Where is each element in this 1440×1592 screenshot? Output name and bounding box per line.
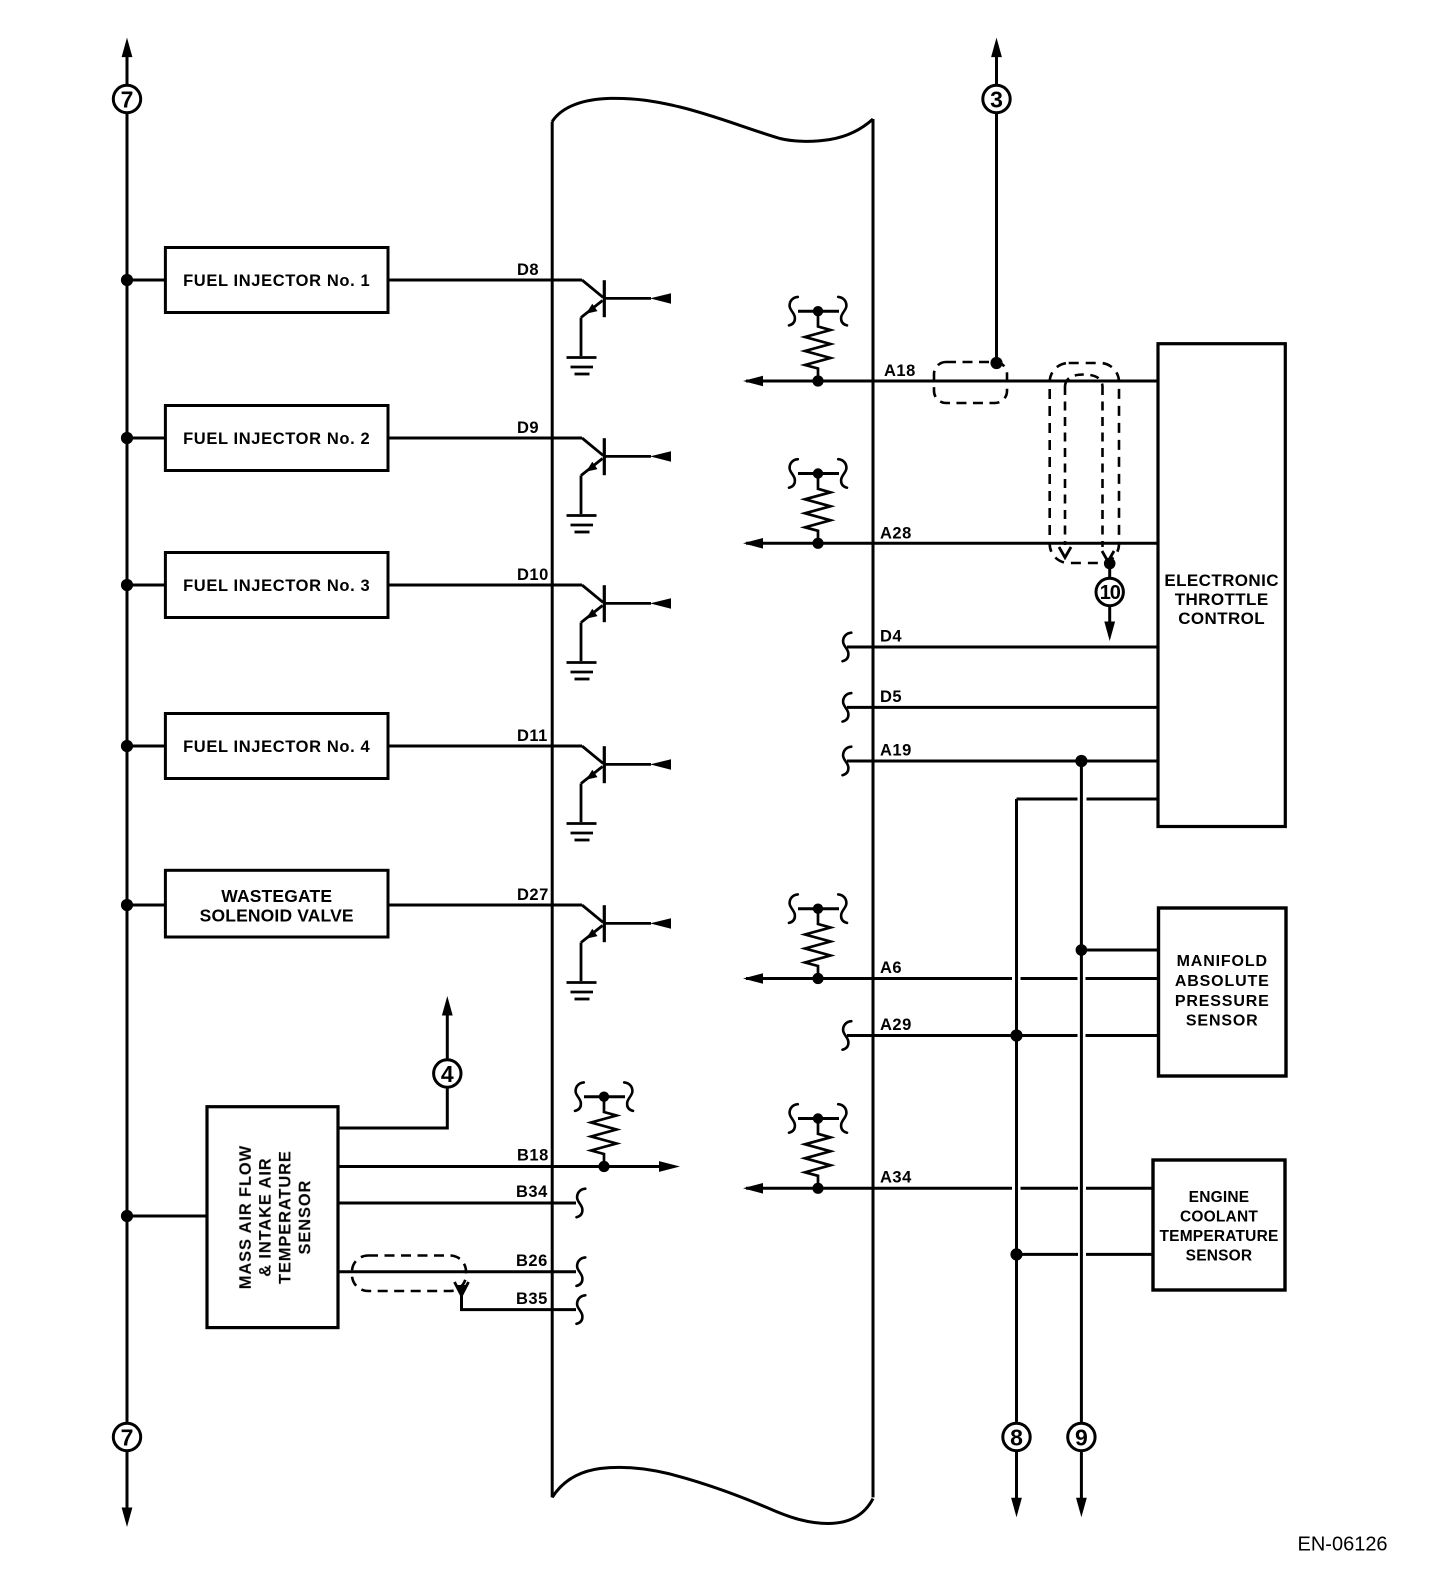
wire A18 bbox=[743, 376, 763, 387]
svg-text:FUEL INJECTOR No. 4: FUEL INJECTOR No. 4 bbox=[183, 738, 370, 756]
svg-text:SENSOR: SENSOR bbox=[1186, 1248, 1253, 1265]
svg-text:D27: D27 bbox=[517, 886, 549, 904]
component ELECTRONIC THROTTLE CONTROL bbox=[1158, 344, 1285, 827]
wire rail to MAF bbox=[127, 1215, 207, 1218]
svg-text:A34: A34 bbox=[880, 1168, 912, 1186]
junction rail-MAF bbox=[121, 1210, 133, 1222]
node 3 arrow bbox=[991, 38, 1002, 85]
junction ECTpin2-net8 bbox=[1010, 1248, 1022, 1260]
svg-text:A29: A29 bbox=[880, 1016, 912, 1034]
node 7 top circle bbox=[113, 85, 140, 112]
wire box to ECM pin D27 bbox=[388, 904, 582, 907]
junction rail-wire D11 bbox=[121, 740, 133, 752]
resistor pull-up A28 bbox=[789, 459, 847, 549]
svg-text:THROTTLE: THROTTLE bbox=[1175, 590, 1269, 609]
svg-text:PRESSURE: PRESSURE bbox=[1175, 993, 1270, 1010]
shield (dashed) around A18 bbox=[934, 362, 1007, 403]
wire B26 bbox=[338, 1270, 576, 1273]
svg-text:A19: A19 bbox=[880, 742, 912, 760]
svg-text:B35: B35 bbox=[516, 1290, 548, 1308]
svg-text:COOLANT: COOLANT bbox=[1180, 1209, 1258, 1226]
svg-text:D4: D4 bbox=[880, 628, 902, 646]
wire net3 down to A18 shield bbox=[995, 113, 998, 360]
resistor pull-up A6 bbox=[789, 894, 847, 984]
wire rail to box D27 bbox=[127, 904, 165, 907]
svg-text:B18: B18 bbox=[517, 1147, 549, 1165]
transistor Q1 (D8) bbox=[567, 280, 672, 374]
svg-text:ABSOLUTE: ABSOLUTE bbox=[1175, 973, 1270, 990]
wire net8 vertical bbox=[1015, 799, 1018, 1423]
wire box to ECM pin D10 bbox=[388, 584, 582, 587]
wire net9 vertical bbox=[1080, 761, 1083, 1423]
shield drain arrowheads bbox=[1059, 547, 1071, 558]
svg-text:3: 3 bbox=[990, 87, 1003, 113]
svg-text:B34: B34 bbox=[516, 1183, 548, 1201]
svg-text:MASS AIR FLOW: MASS AIR FLOW bbox=[237, 1145, 255, 1289]
svg-text:TEMPERATURE: TEMPERATURE bbox=[276, 1150, 294, 1284]
svg-text:CONTROL: CONTROL bbox=[1178, 609, 1265, 628]
wire B18 bbox=[338, 1165, 659, 1168]
svg-text:SENSOR: SENSOR bbox=[1186, 1013, 1259, 1030]
svg-text:A28: A28 bbox=[880, 524, 912, 542]
wire B35 bbox=[462, 1294, 577, 1310]
ECM box right edge bbox=[872, 119, 875, 1497]
svg-text:SENSOR: SENSOR bbox=[296, 1180, 314, 1255]
node 7 bottom circle bbox=[113, 1423, 140, 1450]
node 9 circle bbox=[1068, 1423, 1095, 1450]
node 7 top arrow bbox=[122, 38, 133, 85]
wire box to ECM pin D8 bbox=[388, 279, 582, 282]
node 10 arrow bbox=[1104, 607, 1115, 642]
svg-text:D9: D9 bbox=[517, 419, 539, 437]
wire MAF pin to node 4 bbox=[338, 1089, 447, 1129]
node 8 circle bbox=[1003, 1423, 1030, 1450]
wire rail to box D11 bbox=[127, 745, 165, 748]
wire D5 bbox=[843, 693, 852, 722]
resistor pull-up A34 bbox=[789, 1104, 847, 1194]
junction net3-shield bbox=[990, 357, 1002, 369]
ECM box bottom torn edge bbox=[552, 1467, 873, 1523]
wire rail to box D9 bbox=[127, 437, 165, 440]
junction A19 branch bbox=[1075, 755, 1087, 767]
wire ECT pin2 bbox=[1017, 1253, 1154, 1256]
wire A19 bbox=[843, 747, 852, 776]
wire box to ECM pin D9 bbox=[388, 437, 582, 440]
junction rail-wire D8 bbox=[121, 274, 133, 286]
wire B34 bbox=[338, 1202, 576, 1205]
component FUEL INJECTOR No. 4 bbox=[165, 714, 388, 779]
component FUEL INJECTOR No. 1 bbox=[165, 248, 388, 313]
shield (dashed) around B26 bbox=[352, 1256, 466, 1292]
double shield inner (dashed) bbox=[1065, 375, 1103, 387]
transistor Q5 (D27) bbox=[567, 905, 672, 999]
svg-text:& INTAKE AIR: & INTAKE AIR bbox=[257, 1158, 275, 1277]
transistor Q4 (D11) bbox=[567, 746, 672, 840]
node 10 circle bbox=[1096, 564, 1123, 606]
svg-text:D11: D11 bbox=[517, 727, 548, 745]
svg-text:FUEL INJECTOR No. 3: FUEL INJECTOR No. 3 bbox=[183, 577, 370, 595]
svg-text:4: 4 bbox=[441, 1061, 454, 1087]
svg-text:A18: A18 bbox=[884, 362, 916, 380]
junction A29-net8 bbox=[1010, 1029, 1022, 1041]
wire D4 bbox=[843, 633, 852, 662]
node 4 circle bbox=[434, 1060, 461, 1087]
node 9 arrow bbox=[1076, 1451, 1087, 1518]
svg-text:EN-06126: EN-06126 bbox=[1298, 1533, 1388, 1555]
wire rail to box D10 bbox=[127, 584, 165, 587]
svg-text:SOLENOID VALVE: SOLENOID VALVE bbox=[200, 906, 354, 926]
junction rail-wire D9 bbox=[121, 432, 133, 444]
node 7 bottom arrow bbox=[122, 1451, 133, 1527]
component MANIFOLD ABSOLUTE PRESSURE SENSOR bbox=[1159, 908, 1287, 1076]
double shield outer (dashed) bbox=[1050, 363, 1119, 563]
svg-text:MANIFOLD: MANIFOLD bbox=[1177, 953, 1268, 970]
shield drain arrow B26 bbox=[455, 1282, 469, 1296]
junction shield-net10 bbox=[1104, 558, 1116, 570]
wire A28 bbox=[743, 538, 763, 549]
component FUEL INJECTOR No. 2 bbox=[165, 406, 388, 471]
svg-text:9: 9 bbox=[1075, 1425, 1088, 1451]
node 4 arrow bbox=[442, 996, 453, 1060]
wire box to ECM pin D11 bbox=[388, 745, 582, 748]
component ENGINE COOLANT TEMPERATURE SENSOR bbox=[1153, 1160, 1285, 1290]
svg-text:D10: D10 bbox=[517, 566, 549, 584]
component WASTEGATE SOLENOID VALVE bbox=[165, 870, 388, 937]
svg-text:7: 7 bbox=[121, 87, 134, 113]
svg-text:10: 10 bbox=[1100, 582, 1121, 604]
node 8 arrow bbox=[1011, 1451, 1022, 1518]
node 3 circle bbox=[983, 85, 1010, 112]
svg-text:FUEL INJECTOR No. 1: FUEL INJECTOR No. 1 bbox=[183, 272, 370, 290]
wire A6 bbox=[743, 973, 763, 984]
junction rail-wire D10 bbox=[121, 579, 133, 591]
svg-text:WASTEGATE: WASTEGATE bbox=[221, 886, 332, 906]
wire A29 bbox=[843, 1021, 852, 1049]
svg-text:FUEL INJECTOR No. 2: FUEL INJECTOR No. 2 bbox=[183, 430, 370, 448]
svg-text:D5: D5 bbox=[880, 688, 902, 706]
wire A34 bbox=[743, 1183, 763, 1194]
svg-text:TEMPERATURE: TEMPERATURE bbox=[1159, 1228, 1278, 1245]
ECM box left edge bbox=[551, 122, 554, 1498]
resistor pull-up B18 bbox=[575, 1082, 633, 1172]
wire rail to box D8 bbox=[127, 279, 165, 282]
transistor Q2 (D9) bbox=[567, 438, 672, 532]
ECM box top torn edge bbox=[552, 98, 873, 141]
component MASS AIR FLOW & INTAKE AIR TEMPERATURE SENSOR bbox=[207, 1107, 338, 1328]
wire MAP pin1 bbox=[1076, 944, 1088, 956]
junction rail-wire D27 bbox=[121, 899, 133, 911]
svg-text:7: 7 bbox=[121, 1425, 134, 1451]
svg-text:A6: A6 bbox=[880, 959, 902, 977]
component FUEL INJECTOR No. 3 bbox=[165, 553, 388, 618]
wire ETC low pin bbox=[1017, 798, 1159, 801]
svg-text:8: 8 bbox=[1010, 1425, 1023, 1451]
svg-text:D8: D8 bbox=[517, 261, 539, 279]
svg-text:ENGINE: ENGINE bbox=[1189, 1189, 1250, 1206]
svg-text:B26: B26 bbox=[516, 1252, 548, 1270]
resistor pull-up A18 bbox=[789, 297, 847, 387]
svg-text:ELECTRONIC: ELECTRONIC bbox=[1164, 571, 1279, 590]
transistor Q3 (D10) bbox=[567, 585, 672, 679]
wire: left power rail bbox=[126, 113, 129, 1424]
